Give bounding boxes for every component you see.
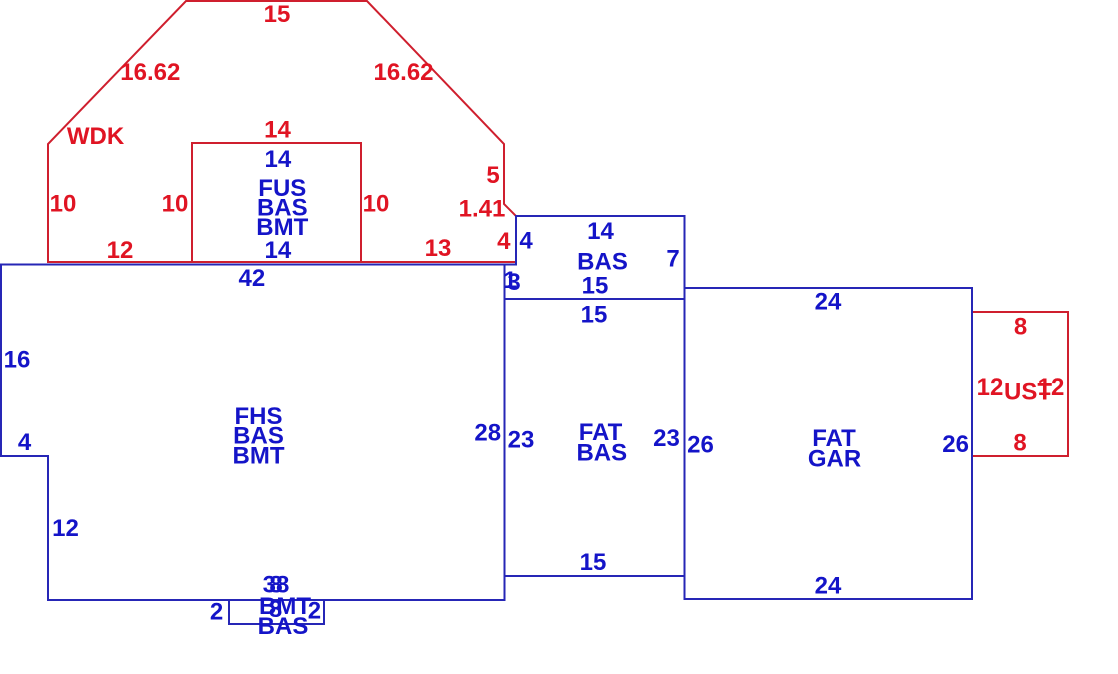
svg-text:10: 10	[50, 191, 77, 218]
svg-text:GAR: GAR	[808, 446, 861, 473]
svg-text:42: 42	[239, 265, 266, 292]
svg-text:4: 4	[18, 429, 32, 456]
svg-text:26: 26	[942, 431, 969, 458]
svg-text:WDK: WDK	[67, 123, 125, 150]
svg-text:3: 3	[507, 269, 520, 296]
FAT BAS middle section outline (blue)	[505, 216, 685, 576]
svg-text:14: 14	[264, 117, 291, 144]
FUS BAS BMT upper box outline (red)	[192, 143, 361, 262]
svg-text:1.41: 1.41	[459, 196, 506, 223]
svg-text:12: 12	[1038, 374, 1065, 401]
svg-text:15: 15	[581, 302, 608, 329]
svg-text:15: 15	[582, 273, 609, 300]
svg-text:12: 12	[52, 515, 79, 542]
svg-text:10: 10	[162, 191, 189, 218]
svg-text:28: 28	[474, 420, 501, 447]
svg-text:15: 15	[580, 549, 607, 576]
svg-text:BAS: BAS	[577, 249, 628, 276]
svg-text:4: 4	[497, 228, 511, 255]
svg-text:23: 23	[653, 425, 680, 452]
svg-text:26: 26	[687, 431, 714, 458]
svg-text:15: 15	[264, 1, 291, 28]
svg-text:8: 8	[1013, 430, 1026, 457]
UST box outline (red)	[972, 312, 1068, 456]
svg-text:2: 2	[308, 598, 321, 625]
svg-text:10: 10	[363, 191, 390, 218]
wood deck WDK outline (red)	[48, 1, 516, 262]
svg-text:5: 5	[486, 162, 499, 189]
svg-text:7: 7	[666, 246, 679, 273]
svg-text:BMT: BMT	[233, 442, 285, 469]
svg-text:14: 14	[587, 218, 614, 245]
svg-text:BAS: BAS	[576, 440, 627, 467]
svg-text:24: 24	[815, 289, 842, 316]
svg-text:BAS: BAS	[258, 613, 309, 640]
svg-text:24: 24	[815, 573, 842, 600]
svg-text:14: 14	[265, 146, 292, 173]
BMT BAS small bottom box outline (blue)	[229, 600, 324, 624]
FAT GAR garage outline (blue)	[685, 288, 973, 599]
svg-text:14: 14	[265, 237, 292, 264]
svg-text:16: 16	[4, 347, 31, 374]
svg-text:8: 8	[1014, 314, 1027, 341]
svg-text:4: 4	[519, 228, 533, 255]
FHS BAS BMT main house outline (blue)	[1, 265, 505, 601]
svg-text:13: 13	[425, 235, 452, 262]
svg-text:16.62: 16.62	[120, 59, 180, 86]
svg-text:12: 12	[977, 374, 1004, 401]
BAS / FAT BAS divider line (blue)	[505, 298, 685, 300]
svg-text:23: 23	[508, 427, 535, 454]
svg-text:12: 12	[107, 237, 134, 264]
svg-text:16.62: 16.62	[373, 59, 433, 86]
svg-text:2: 2	[210, 599, 223, 626]
